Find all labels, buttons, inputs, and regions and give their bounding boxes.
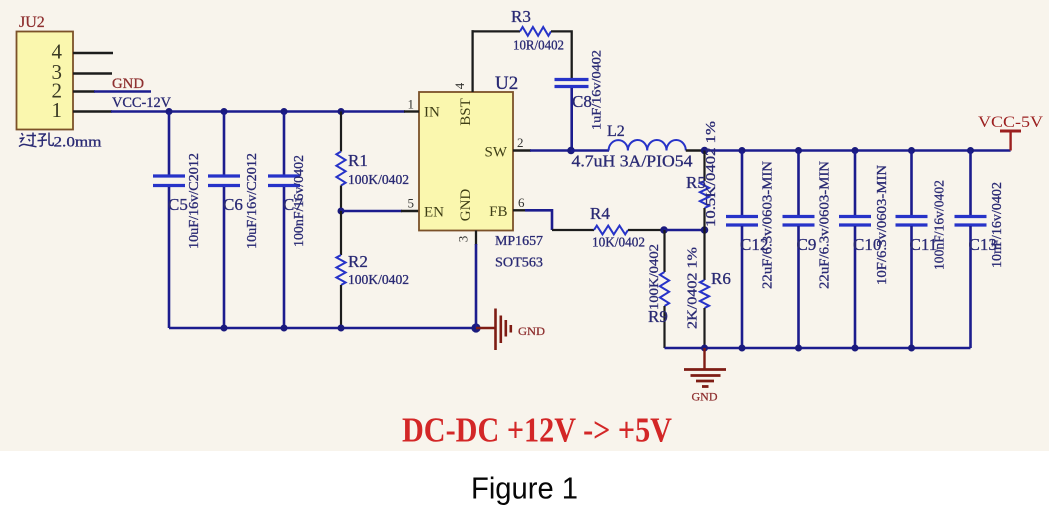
junction nodes on left ground rail xyxy=(221,325,228,332)
wire bottom ground rail (right) xyxy=(665,347,971,350)
svg-text:10F/6.3v/0603-MIN: 10F/6.3v/0603-MIN xyxy=(875,165,890,285)
wire +5V top rail xyxy=(705,149,1011,152)
resistor R3 xyxy=(520,27,551,36)
svg-text:10uF/16v/C2012: 10uF/16v/C2012 xyxy=(244,153,259,249)
junction node on ground rail xyxy=(852,345,859,352)
svg-text:C5: C5 xyxy=(168,195,188,214)
junction node on +5V rail xyxy=(795,147,802,154)
wire L2 out xyxy=(686,149,705,151)
wire bottom ground rail (left) xyxy=(169,327,477,330)
inductor L2 xyxy=(609,140,686,150)
svg-text:L2: L2 xyxy=(607,123,625,140)
ground symbol (sideways) xyxy=(476,309,511,351)
capacitor C11 xyxy=(896,151,928,349)
wire R4 to node xyxy=(628,229,664,231)
svg-text:BST: BST xyxy=(458,98,474,126)
capacitor C9 xyxy=(783,151,815,349)
JU2 pin 3 wire xyxy=(73,72,112,74)
wire BST vertical xyxy=(471,30,473,92)
svg-text:U2: U2 xyxy=(495,73,518,94)
svg-text:R1: R1 xyxy=(348,151,368,170)
wire FB xyxy=(513,209,526,211)
svg-text:C6: C6 xyxy=(223,195,243,214)
capacitor C8 xyxy=(555,80,589,151)
svg-text:Figure 1: Figure 1 xyxy=(471,471,578,506)
resistor R4 xyxy=(594,226,628,235)
svg-text:3: 3 xyxy=(456,236,471,243)
junction node on rail (R1) xyxy=(338,108,345,115)
svg-text:100K/0402: 100K/0402 xyxy=(348,172,409,187)
svg-text:DC-DC +12V -> +5V: DC-DC +12V -> +5V xyxy=(402,411,672,450)
svg-text:6: 6 xyxy=(518,195,525,210)
svg-text:22uF/6.3v/0603-MIN: 22uF/6.3v/0603-MIN xyxy=(818,161,833,289)
junction node on rail (C5) xyxy=(166,108,173,115)
svg-text:FB: FB xyxy=(489,204,507,220)
svg-text:4: 4 xyxy=(452,82,467,89)
svg-text:2K/0402 1%: 2K/0402 1% xyxy=(685,247,700,329)
resistor R5 xyxy=(700,151,709,231)
text 过孔2.0mm xyxy=(19,133,102,151)
JU2 pin 1 wire (VCC-12V net) xyxy=(73,110,112,112)
junction node FB/R5/R6 xyxy=(701,226,709,234)
svg-text:EN: EN xyxy=(424,205,444,221)
junction node at GND symbol xyxy=(471,323,480,332)
junction node on ground rail xyxy=(701,345,708,352)
svg-text:10K/0402: 10K/0402 xyxy=(592,235,645,250)
svg-text:JU2: JU2 xyxy=(19,14,45,31)
svg-text:10uF/16v/C2012: 10uF/16v/C2012 xyxy=(186,153,201,249)
junction node SW/C8 xyxy=(567,147,575,155)
JU2 pin 4 wire xyxy=(73,52,113,54)
svg-text:10R/0402: 10R/0402 xyxy=(513,38,564,53)
svg-text:IN: IN xyxy=(424,105,440,121)
svg-text:C9: C9 xyxy=(797,235,817,254)
junction node on rail (C7) xyxy=(281,108,288,115)
svg-text:GND: GND xyxy=(692,390,718,404)
wire U2 GND pin xyxy=(475,231,477,246)
svg-text:100nF/16v/0402: 100nF/16v/0402 xyxy=(291,155,306,247)
svg-text:100nF/16v/0402: 100nF/16v/0402 xyxy=(933,180,948,270)
svg-text:2: 2 xyxy=(517,135,524,150)
wire R3 to C8 xyxy=(551,31,572,78)
junction node on +5V rail xyxy=(908,147,915,154)
svg-text:R2: R2 xyxy=(348,252,368,271)
resistor R1 xyxy=(336,112,345,212)
junction node on +5V rail xyxy=(739,147,746,154)
wire EN net xyxy=(341,210,402,213)
junction node on rail (C6) xyxy=(221,108,228,115)
wire SW to L2 xyxy=(571,149,609,152)
svg-text:SOT563: SOT563 xyxy=(495,255,543,270)
wire VCC-12V rail xyxy=(111,110,405,113)
svg-text:R6: R6 xyxy=(711,269,731,288)
capacitor C6 xyxy=(208,112,240,329)
wire BST top run xyxy=(472,30,521,32)
op-amp/regulator IC U2 body xyxy=(419,92,513,231)
IN pin stub xyxy=(404,110,419,112)
junction node L2/R5 xyxy=(701,147,709,155)
connector JU2 xyxy=(17,32,74,130)
wire FB node xyxy=(664,229,705,232)
junction node FB/R9 xyxy=(660,226,668,234)
svg-text:VCC-5V: VCC-5V xyxy=(978,114,1044,131)
svg-text:1uF/16v/0402: 1uF/16v/0402 xyxy=(589,50,604,130)
svg-text:1: 1 xyxy=(52,98,63,122)
wire SW xyxy=(513,149,531,151)
svg-text:R4: R4 xyxy=(590,204,610,223)
junction node on ground rail xyxy=(795,345,802,352)
capacitor C7 xyxy=(268,112,300,329)
svg-text:GND: GND xyxy=(458,189,474,222)
JU2 pin 2 wire (GND net) xyxy=(73,90,95,92)
svg-text:1: 1 xyxy=(408,97,415,112)
svg-text:R3: R3 xyxy=(511,7,531,26)
svg-text:4.7uH 3A/PIO54: 4.7uH 3A/PIO54 xyxy=(572,152,693,171)
junction node on +5V rail xyxy=(967,147,974,154)
capacitor C10 xyxy=(839,151,871,349)
capacitor C5 xyxy=(153,112,185,329)
svg-text:VCC-12V: VCC-12V xyxy=(112,95,172,111)
svg-text:5: 5 xyxy=(408,196,415,211)
svg-text:2.0mm: 2.0mm xyxy=(54,135,102,151)
ground symbol GND xyxy=(684,348,726,387)
capacitor C12 xyxy=(726,151,758,349)
power symbol VCC-5V xyxy=(1000,131,1021,151)
capacitor C13 xyxy=(955,151,987,349)
svg-text:100K/0402: 100K/0402 xyxy=(646,244,661,310)
junction node on ground rail xyxy=(739,345,746,352)
svg-text:MP1657: MP1657 xyxy=(495,233,543,248)
junction node on ground rail xyxy=(908,345,915,352)
resistor R6 xyxy=(700,230,709,348)
junction node on +5V rail xyxy=(852,147,859,154)
svg-text:10.5K/0402 1%: 10.5K/0402 1% xyxy=(703,121,718,227)
svg-text:10nF/16v/0402: 10nF/16v/0402 xyxy=(990,182,1005,268)
svg-text:100K/0402: 100K/0402 xyxy=(348,272,409,287)
resistor R2 xyxy=(336,211,345,328)
resistor R9 xyxy=(660,230,669,348)
svg-text:SW: SW xyxy=(485,145,508,161)
svg-text:GND: GND xyxy=(518,324,545,338)
svg-text:GND: GND xyxy=(112,76,144,92)
svg-text:22uF/6.3v/0603-MIN: 22uF/6.3v/0603-MIN xyxy=(761,161,776,289)
junction node EN xyxy=(338,208,345,215)
